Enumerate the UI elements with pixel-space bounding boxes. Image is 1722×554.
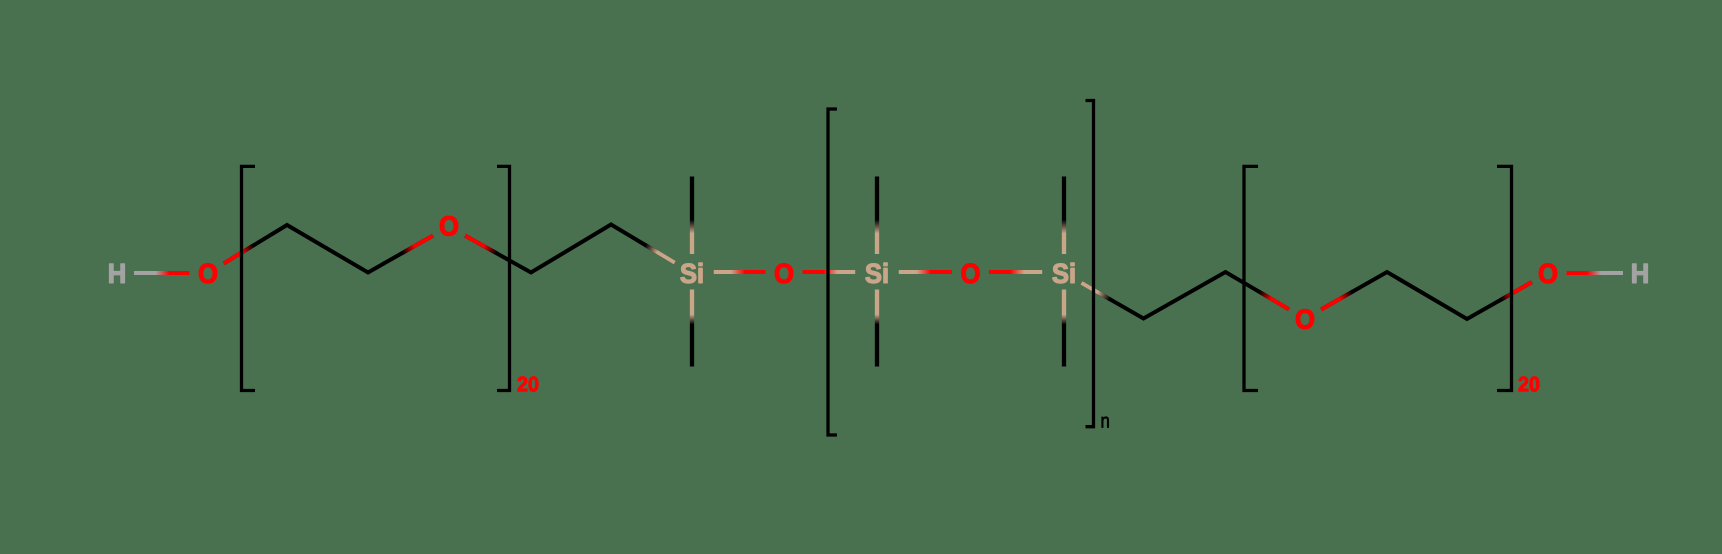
bond Si2-O4 tan/red: [899, 270, 952, 274]
bond Si2-CH3 up: [875, 177, 879, 255]
atom H (right hydroxyl): [1632, 264, 1647, 283]
atom O1 (left hydroxyl): [199, 264, 217, 283]
bracket siloxane n close: [1086, 101, 1094, 427]
subscript 20 (right PEG repeat count): [1519, 377, 1529, 392]
wire: chain O1-CH2-CH2-O2: [224, 225, 433, 273]
bond O6-H (red/gray halves): [1567, 271, 1624, 275]
atom O6 (right hydroxyl): [1539, 264, 1557, 283]
bond O2-C red half: [465, 236, 497, 254]
wire: chain O5-CH2-CH2-O6: [1321, 272, 1532, 319]
bond C-Si1 tan half: [645, 245, 675, 263]
atom O4 (siloxane): [962, 264, 980, 283]
bond C-O6 red half: [1501, 282, 1532, 300]
atom O2 (left PEG ether): [440, 216, 458, 235]
wire: chain Si3-CH2-CH2-O5: [1081, 272, 1289, 319]
bracket siloxane n open: [828, 109, 837, 435]
subscript n (siloxane repeat count): [1102, 417, 1109, 428]
atom O3 (siloxane): [775, 264, 793, 283]
bond Si2-CH3 down: [875, 290, 879, 367]
bond Si1-CH3 down: [690, 290, 694, 367]
wire: chain O2-CH2-CH2-Si1: [465, 225, 675, 273]
bond Si3-C tan half: [1081, 283, 1110, 300]
atom Si3: [1053, 264, 1068, 283]
bond C-O5 red half: [1258, 291, 1289, 309]
bond Si1-O3 tan/red: [714, 270, 766, 274]
atom Si1: [681, 264, 696, 283]
atom O5 (right PEG ether): [1296, 309, 1314, 328]
atom Si2: [866, 264, 881, 283]
bracket right PEG close: [1497, 166, 1512, 390]
bond O4-Si3 red/tan: [989, 270, 1042, 274]
atom H (left hydroxyl): [109, 264, 124, 283]
bond O5-C red half: [1321, 291, 1353, 309]
bracket left PEG open: [242, 166, 256, 390]
subscript 20 (left PEG repeat count): [518, 377, 528, 392]
bond Si3-CH3 up: [1062, 177, 1066, 255]
bracket right PEG open: [1244, 166, 1258, 390]
bond O3-Si2 red/tan: [803, 270, 856, 274]
bond C-O2 red half: [402, 236, 433, 254]
bond Si1-CH3 up: [690, 177, 694, 255]
bond Si3-CH3 down: [1062, 290, 1066, 367]
bond H-O1 (gray/red halves): [134, 271, 190, 275]
bond O1-C red half: [224, 245, 255, 264]
bracket left PEG close: [497, 166, 510, 390]
